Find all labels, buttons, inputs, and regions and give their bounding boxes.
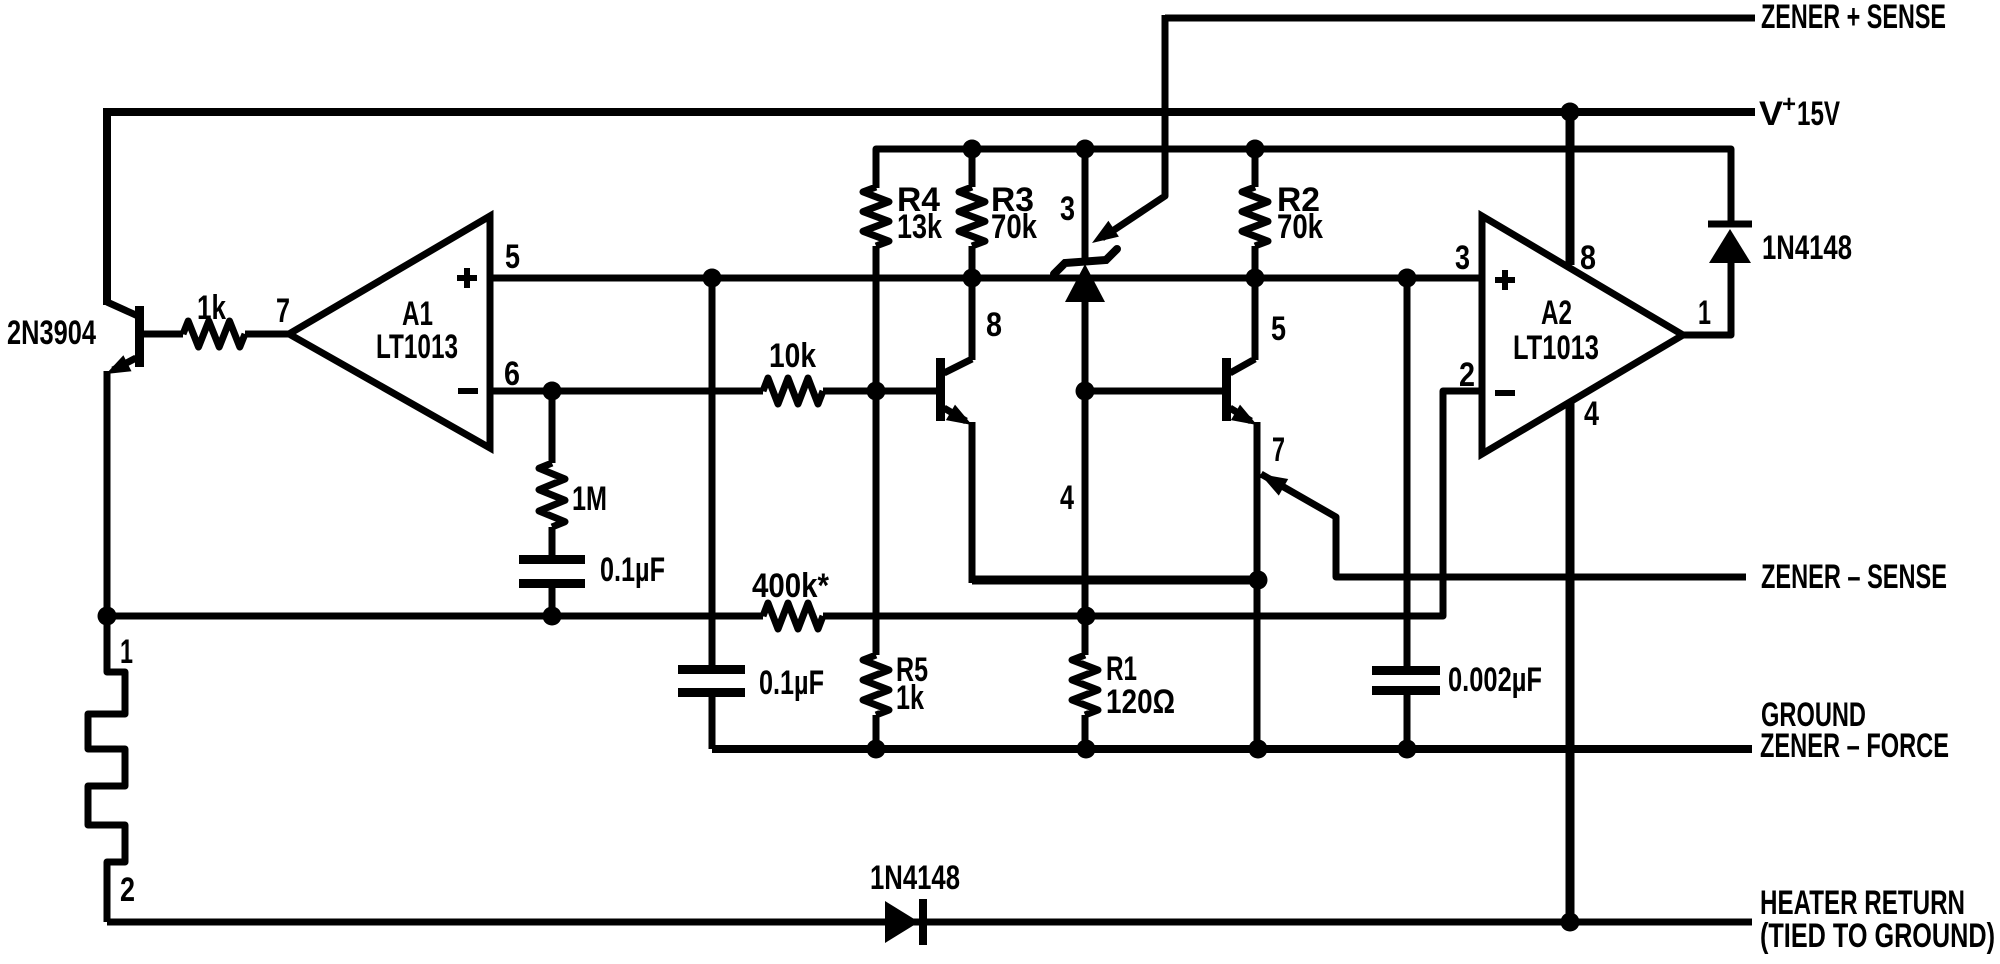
svg-text:LT1013: LT1013 bbox=[1513, 329, 1599, 367]
svg-text:13k: 13k bbox=[897, 208, 942, 246]
svg-text:LT1013: LT1013 bbox=[376, 328, 458, 366]
svg-text:0.1µF: 0.1µF bbox=[600, 551, 665, 589]
svg-text:15V: 15V bbox=[1797, 95, 1840, 133]
svg-text:2N3904: 2N3904 bbox=[7, 314, 96, 352]
svg-text:(TIED TO GROUND): (TIED TO GROUND) bbox=[1760, 917, 1995, 955]
svg-text:7: 7 bbox=[276, 292, 290, 330]
svg-text:3: 3 bbox=[1060, 190, 1075, 228]
svg-text:2: 2 bbox=[120, 871, 135, 909]
svg-text:8: 8 bbox=[986, 306, 1002, 344]
svg-text:70k: 70k bbox=[1277, 208, 1323, 246]
svg-text:A2: A2 bbox=[1541, 294, 1572, 332]
svg-text:0.002µF: 0.002µF bbox=[1448, 661, 1542, 699]
svg-text:70k: 70k bbox=[991, 208, 1037, 246]
svg-text:5: 5 bbox=[1271, 310, 1286, 348]
svg-text:3: 3 bbox=[1455, 239, 1470, 277]
svg-text:10k: 10k bbox=[769, 337, 816, 375]
svg-text:1N4148: 1N4148 bbox=[870, 859, 960, 897]
svg-text:1k: 1k bbox=[896, 679, 924, 717]
svg-text:ZENER + SENSE: ZENER + SENSE bbox=[1761, 0, 1946, 36]
svg-text:5: 5 bbox=[505, 238, 520, 276]
svg-text:2: 2 bbox=[1459, 356, 1475, 394]
svg-text:7: 7 bbox=[1272, 431, 1285, 469]
svg-text:1M: 1M bbox=[572, 480, 607, 518]
svg-text:1: 1 bbox=[120, 633, 133, 671]
svg-text:ZENER – FORCE: ZENER – FORCE bbox=[1760, 727, 1949, 765]
svg-text:1k: 1k bbox=[197, 289, 226, 327]
svg-text:V: V bbox=[1759, 95, 1783, 133]
svg-text:0.1µF: 0.1µF bbox=[759, 664, 824, 702]
svg-text:8: 8 bbox=[1580, 239, 1596, 277]
svg-text:1: 1 bbox=[1698, 294, 1711, 332]
svg-text:1N4148: 1N4148 bbox=[1762, 229, 1852, 267]
svg-text:120Ω: 120Ω bbox=[1106, 683, 1175, 721]
svg-text:6: 6 bbox=[504, 355, 520, 393]
svg-text:400k*: 400k* bbox=[752, 567, 830, 605]
svg-text:+: + bbox=[1782, 91, 1796, 118]
svg-text:ZENER – SENSE: ZENER – SENSE bbox=[1761, 558, 1947, 596]
svg-text:4: 4 bbox=[1584, 395, 1599, 433]
svg-text:4: 4 bbox=[1060, 479, 1074, 517]
